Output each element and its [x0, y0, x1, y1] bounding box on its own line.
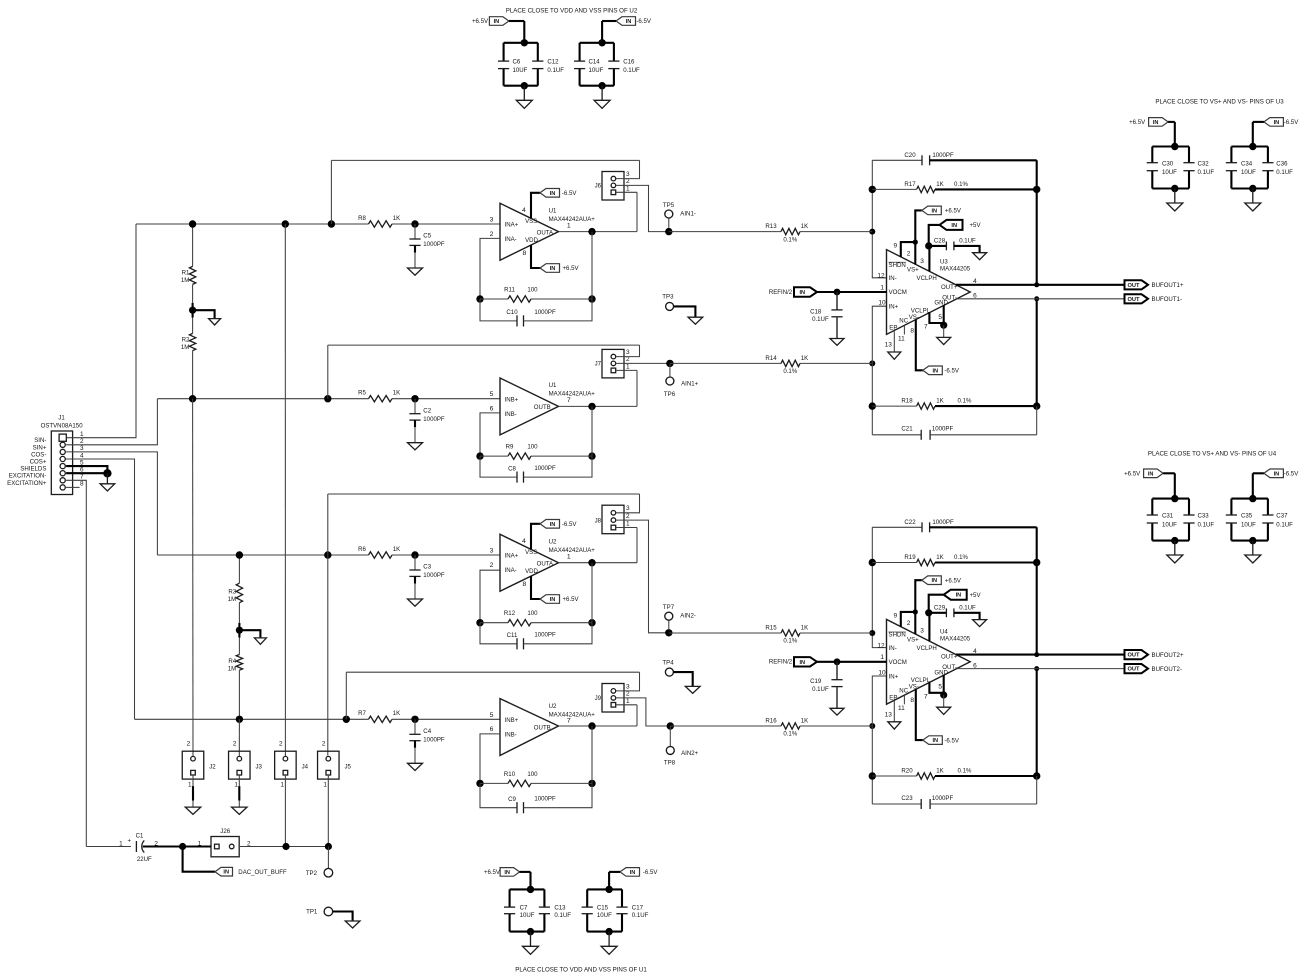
wire jumper pin3 to bypass — [616, 160, 640, 178]
capacitor C16 — [613, 43, 615, 61]
svg-text:U1: U1 — [549, 382, 557, 389]
svg-text:C9: C9 — [508, 796, 516, 803]
svg-text:SHIELDS: SHIELDS — [20, 466, 46, 473]
ground — [232, 807, 248, 814]
op-amp U3 MAX44205 (fully differential) — [887, 250, 971, 335]
ground — [1252, 541, 1254, 555]
power pin VDD +6.5V (IN) — [531, 245, 540, 268]
svg-text:0.1%: 0.1% — [954, 554, 968, 561]
ground — [1174, 189, 1176, 204]
ground — [1174, 541, 1176, 555]
svg-text:J26: J26 — [220, 828, 230, 835]
svg-text:TP3: TP3 — [662, 294, 674, 301]
svg-text:IN: IN — [799, 660, 805, 666]
svg-text:IN: IN — [626, 19, 632, 25]
capacitor C20 1000PF — [872, 159, 922, 161]
ground — [185, 807, 201, 814]
wire right rail bottom — [1034, 666, 1039, 671]
svg-text:C22: C22 — [904, 519, 916, 526]
svg-text:R9: R9 — [506, 444, 514, 451]
svg-text:1K: 1K — [801, 624, 808, 631]
jumper J9 — [602, 684, 624, 713]
svg-text:1: 1 — [880, 284, 884, 291]
wire SHIELDS (J1.5) — [66, 466, 107, 473]
power flag -6.5V (IN) — [1264, 118, 1284, 127]
node R3 top — [236, 551, 243, 558]
wire COS+ to J3 — [238, 719, 240, 756]
svg-text:10UF: 10UF — [1162, 521, 1177, 528]
svg-text:C12: C12 — [547, 58, 559, 65]
wire input row — [136, 223, 369, 225]
output flag BUFOUT1- (OUT) — [1125, 294, 1149, 303]
svg-text:1M: 1M — [181, 344, 189, 351]
svg-text:7: 7 — [80, 474, 84, 481]
svg-text:10UF: 10UF — [589, 67, 604, 74]
ground — [888, 722, 901, 729]
svg-text:TP1: TP1 — [306, 909, 318, 916]
svg-text:INB+: INB+ — [505, 396, 519, 403]
jumper J7 — [602, 349, 624, 378]
svg-text:U4: U4 — [940, 628, 948, 635]
svg-text:IN: IN — [951, 223, 957, 229]
wire — [238, 775, 240, 786]
wire — [510, 888, 545, 890]
svg-text:2: 2 — [490, 562, 494, 569]
svg-text:C1: C1 — [136, 832, 144, 839]
svg-text:R18: R18 — [901, 398, 913, 405]
svg-text:MAX44242AUA+: MAX44242AUA+ — [549, 711, 596, 718]
power pin VSS -6.5V (IN) — [531, 524, 540, 549]
power flag DAC_OUT_BUFF (IN) — [183, 847, 215, 872]
wire EXCITATION+ (J1.7) — [66, 480, 86, 846]
svg-text:0.1UF: 0.1UF — [812, 316, 829, 323]
power flag -6.5V (IN) — [1264, 469, 1284, 478]
wire right rail top — [1036, 160, 1038, 284]
resistor R20 1K 0.1% (feedback bottom) — [869, 772, 876, 779]
op-amp U4 MAX44205 (fully differential) — [887, 619, 971, 704]
wire output — [559, 725, 638, 727]
jumper J3 — [229, 751, 251, 779]
svg-text:1000PF: 1000PF — [932, 519, 954, 526]
node R3/R4 midpoint — [236, 627, 243, 634]
svg-text:1K: 1K — [393, 215, 400, 222]
resistor R19 1K 0.1% (feedback top) — [869, 559, 876, 566]
svg-text:1K: 1K — [801, 355, 808, 362]
output flag BUFOUT2+ (OUT) — [1125, 650, 1149, 659]
wire inverting input to feedback — [480, 238, 500, 299]
resistor R16 1K 0.1% (input bottom) — [869, 723, 875, 729]
svg-text:0.1UF: 0.1UF — [632, 912, 649, 919]
svg-text:3: 3 — [626, 171, 630, 178]
ground — [408, 599, 423, 606]
svg-text:11: 11 — [898, 705, 905, 712]
svg-text:IN-: IN- — [889, 275, 897, 282]
svg-text:OUT: OUT — [1127, 297, 1140, 303]
svg-text:IN: IN — [1153, 120, 1159, 126]
wire input row — [157, 554, 368, 556]
svg-text:MAX44242AUA+: MAX44242AUA+ — [549, 547, 596, 554]
svg-text:TP2: TP2 — [306, 870, 318, 877]
svg-text:7: 7 — [567, 397, 571, 404]
svg-text:AIN2-: AIN2- — [680, 613, 696, 620]
resistor R18 1K 0.1% (feedback bottom) — [869, 402, 876, 409]
resistor R12 100 (feedback) — [476, 619, 483, 626]
svg-text:4: 4 — [80, 452, 84, 459]
svg-text:BUFOUT2+: BUFOUT2+ — [1152, 652, 1184, 659]
svg-text:SIN-: SIN- — [34, 437, 46, 444]
svg-text:10UF: 10UF — [1241, 169, 1256, 176]
wire bypass top — [346, 671, 639, 673]
wire inverting input to feedback — [480, 413, 500, 456]
svg-text:J2: J2 — [209, 764, 216, 771]
ground — [888, 352, 901, 359]
svg-text:GND: GND — [934, 300, 948, 307]
svg-text:EP: EP — [889, 325, 897, 332]
svg-text:100: 100 — [527, 444, 538, 451]
svg-text:EP: EP — [889, 694, 897, 701]
op-amp U2 A MAX44242AUA+ — [500, 534, 559, 591]
wire jumper pin3 to bypass — [616, 672, 640, 691]
svg-text:INB-: INB- — [505, 411, 517, 418]
svg-text:TP8: TP8 — [664, 760, 676, 767]
svg-text:0.1%: 0.1% — [958, 768, 972, 775]
svg-text:MAX44242AUA+: MAX44242AUA+ — [549, 391, 596, 398]
capacitor C7 — [509, 889, 511, 907]
svg-text:C20: C20 — [904, 152, 916, 159]
svg-text:0.1%: 0.1% — [958, 398, 972, 405]
svg-text:IN: IN — [799, 290, 805, 296]
svg-text:1K: 1K — [936, 181, 943, 188]
svg-text:PLACE CLOSE TO VDD AND VSS PIN: PLACE CLOSE TO VDD AND VSS PINS OF U2 — [506, 7, 638, 14]
wire — [192, 775, 194, 786]
svg-text:+6.5V: +6.5V — [945, 208, 962, 215]
capacitor C36 — [1267, 147, 1269, 163]
svg-text:OUT: OUT — [1127, 283, 1140, 289]
svg-text:0.1%: 0.1% — [783, 731, 797, 738]
resistor R15 1K 0.1% (input top) — [869, 630, 875, 636]
wire output — [559, 231, 638, 233]
svg-text:C34: C34 — [1241, 160, 1253, 167]
svg-text:1000PF: 1000PF — [534, 309, 556, 316]
svg-text:VOCM: VOCM — [889, 659, 907, 666]
svg-text:1: 1 — [880, 654, 884, 661]
wire output — [559, 405, 638, 407]
svg-text:VDD: VDD — [525, 568, 538, 575]
op-amp U1 A MAX44242AUA+ — [500, 203, 559, 260]
svg-text:OUTB: OUTB — [534, 404, 551, 411]
svg-text:2: 2 — [233, 741, 237, 748]
svg-text:-6.5V: -6.5V — [944, 368, 960, 375]
svg-text:IN+: IN+ — [889, 304, 899, 311]
svg-text:OUT+: OUT+ — [941, 654, 958, 661]
svg-text:13: 13 — [885, 342, 893, 349]
node J4 tap — [282, 220, 289, 227]
svg-text:R4: R4 — [228, 658, 236, 665]
svg-text:9: 9 — [893, 612, 897, 619]
power pin VDD +6.5V (IN) — [531, 576, 540, 599]
svg-text:10UF: 10UF — [513, 67, 528, 74]
pin NC stub — [903, 325, 905, 334]
svg-text:1: 1 — [626, 521, 630, 528]
svg-text:1K: 1K — [936, 768, 943, 775]
capacitor C3 1000PF — [411, 551, 418, 558]
svg-text:0.1UF: 0.1UF — [623, 67, 640, 74]
svg-text:EXCITATION+: EXCITATION+ — [7, 480, 47, 487]
capacitor C35 — [1230, 499, 1232, 515]
svg-text:IN-: IN- — [889, 645, 897, 652]
svg-text:1: 1 — [567, 222, 571, 229]
svg-text:2: 2 — [626, 356, 630, 363]
ground — [408, 763, 423, 770]
svg-text:J4: J4 — [302, 764, 309, 771]
svg-text:U3: U3 — [940, 259, 948, 266]
power pin VSS -6.5V (IN) — [531, 193, 540, 218]
wire jumper pin3 to bypass — [616, 494, 640, 513]
svg-text:IN: IN — [931, 578, 937, 584]
wire J1.8 stub — [66, 486, 80, 488]
svg-text:12: 12 — [877, 273, 885, 280]
svg-text:1000PF: 1000PF — [423, 736, 445, 743]
svg-text:IN: IN — [956, 593, 962, 599]
ground — [943, 695, 945, 707]
capacitor C11 1000PF (feedback) — [480, 623, 517, 644]
wire OUT+ to BUFOUT2+ — [956, 654, 1125, 656]
power flag +5V (IN) — [944, 590, 967, 600]
power pin VS+ +6.5V (IN) — [915, 210, 922, 264]
svg-text:U2: U2 — [549, 703, 557, 710]
ground — [973, 620, 987, 627]
op-amp U1 B MAX44242AUA+ — [500, 378, 559, 435]
resistor R17 1K 0.1% (feedback top) — [869, 186, 876, 193]
svg-text:IN: IN — [932, 368, 938, 374]
node R4 bottom — [236, 716, 243, 723]
wire right rail top — [1036, 527, 1038, 654]
ground — [1252, 189, 1254, 204]
svg-text:INA-: INA- — [505, 567, 517, 574]
wire input row — [157, 398, 368, 400]
capacitor C29 0.1UF — [929, 612, 947, 614]
svg-text:1: 1 — [567, 553, 571, 560]
svg-text:+5V: +5V — [970, 222, 982, 229]
node DAC_OUT_BUFF — [179, 843, 186, 850]
svg-text:MAX44205: MAX44205 — [940, 266, 971, 273]
svg-text:R20: R20 — [901, 768, 913, 775]
svg-text:0.1%: 0.1% — [783, 638, 797, 645]
svg-text:C31: C31 — [1162, 513, 1174, 520]
capacitor C14 — [579, 43, 581, 61]
svg-text:0.1%: 0.1% — [954, 181, 968, 188]
svg-text:4: 4 — [522, 538, 526, 545]
wire jumper pin1 — [616, 527, 637, 529]
capacitor C32 — [1188, 147, 1190, 163]
test point TP3 (gnd) — [666, 302, 674, 310]
svg-text:VS+: VS+ — [907, 267, 919, 274]
svg-text:J9: J9 — [595, 695, 602, 702]
svg-text:TP6: TP6 — [664, 391, 676, 398]
wire OUT- to BUFOUT1- — [957, 298, 1125, 300]
svg-text:C18: C18 — [810, 308, 822, 315]
svg-text:1000PF: 1000PF — [423, 416, 445, 423]
svg-text:VCLPH: VCLPH — [917, 275, 937, 282]
power flag -6.5V (IN) — [616, 17, 636, 26]
ground — [523, 86, 525, 101]
svg-text:7: 7 — [924, 694, 928, 701]
svg-text:VOCM: VOCM — [889, 289, 907, 296]
svg-text:2: 2 — [322, 741, 326, 748]
svg-text:R6: R6 — [358, 546, 366, 553]
svg-text:0.1UF: 0.1UF — [547, 67, 564, 74]
node SHIELDS/EXCITATION- junction — [103, 469, 111, 477]
svg-text:IN: IN — [931, 208, 937, 214]
svg-text:22UF: 22UF — [137, 856, 152, 863]
svg-text:+: + — [128, 839, 132, 845]
svg-text:C33: C33 — [1198, 513, 1210, 520]
wire VCLPH — [929, 225, 940, 246]
svg-text:8: 8 — [523, 250, 527, 257]
svg-text:IN: IN — [494, 19, 500, 25]
op-amp U2 B MAX44242AUA+ — [500, 699, 559, 756]
wire inverting input to feedback — [480, 734, 500, 784]
svg-text:0.1UF: 0.1UF — [1198, 169, 1215, 176]
svg-text:COS+: COS+ — [30, 459, 47, 466]
wire COS+ (J1.4) — [66, 459, 134, 719]
svg-text:1: 1 — [234, 782, 238, 789]
power flag -6.5V (IN) — [620, 868, 640, 877]
svg-text:+6.5V: +6.5V — [563, 265, 580, 272]
test point TP1 (gnd) — [324, 907, 333, 916]
svg-text:C17: C17 — [632, 905, 644, 912]
svg-text:R15: R15 — [765, 624, 777, 631]
wire — [1152, 498, 1189, 500]
wire — [1152, 145, 1189, 147]
svg-text:C5: C5 — [423, 233, 431, 240]
ground — [239, 630, 260, 638]
svg-text:C10: C10 — [506, 309, 518, 316]
svg-text:R13: R13 — [765, 223, 777, 230]
svg-text:12: 12 — [877, 642, 885, 649]
svg-text:INB+: INB+ — [505, 717, 519, 724]
svg-text:SHDN: SHDN — [889, 632, 906, 639]
svg-text:IN: IN — [630, 870, 636, 876]
svg-text:2: 2 — [187, 741, 191, 748]
svg-text:3: 3 — [490, 217, 494, 224]
wire feedback top rail (IN-) — [872, 527, 886, 647]
ground — [608, 932, 610, 947]
svg-text:+6.5V: +6.5V — [472, 18, 489, 25]
svg-text:U2: U2 — [549, 539, 557, 546]
svg-text:AIN1-: AIN1- — [680, 210, 696, 217]
ground — [830, 708, 844, 715]
pin NC stub — [903, 695, 905, 704]
svg-text:1: 1 — [188, 782, 192, 789]
svg-text:1: 1 — [626, 364, 630, 371]
svg-text:2: 2 — [490, 231, 494, 238]
ground — [106, 473, 108, 484]
test point TP6 / node AIN1+ — [666, 360, 673, 367]
svg-text:100: 100 — [527, 287, 538, 294]
svg-text:J6: J6 — [595, 183, 602, 190]
svg-text:7: 7 — [567, 718, 571, 725]
svg-text:REFIN/2: REFIN/2 — [769, 289, 793, 296]
svg-text:4: 4 — [522, 207, 526, 214]
svg-text:R8: R8 — [358, 215, 366, 222]
svg-text:2: 2 — [907, 250, 911, 257]
svg-text:NC: NC — [899, 687, 908, 694]
svg-text:TP4: TP4 — [662, 660, 674, 667]
wire jumper pin1 — [616, 369, 637, 371]
svg-text:AIN2+: AIN2+ — [681, 750, 699, 757]
node R2 bottom — [189, 395, 196, 402]
test point TP5 / node AIN1- — [665, 228, 672, 235]
svg-text:6: 6 — [490, 726, 494, 733]
svg-text:C35: C35 — [1241, 513, 1253, 520]
wire bypass top — [328, 493, 640, 495]
svg-text:9: 9 — [893, 243, 897, 250]
svg-text:VSS: VSS — [525, 549, 537, 556]
svg-text:+6.5V: +6.5V — [1124, 471, 1141, 478]
wire feedback top rail (IN-) — [872, 160, 886, 277]
wire — [1231, 145, 1268, 147]
output flag BUFOUT1+ (OUT) — [1125, 280, 1149, 289]
svg-text:1K: 1K — [936, 554, 943, 561]
ground — [408, 268, 423, 275]
capacitor C12 — [537, 43, 539, 61]
svg-text:OUTA: OUTA — [537, 560, 554, 567]
node R1 top — [189, 220, 196, 227]
capacitor C37 — [1267, 499, 1269, 515]
wire input row — [135, 718, 369, 720]
svg-text:3: 3 — [626, 683, 630, 690]
svg-text:1: 1 — [280, 782, 284, 789]
wire — [504, 42, 538, 44]
svg-text:3: 3 — [920, 628, 924, 635]
resistor R14 1K 0.1% (input bottom) — [869, 360, 875, 366]
svg-text:13: 13 — [885, 712, 893, 719]
svg-text:OUT: OUT — [1127, 653, 1140, 659]
svg-text:0.1UF: 0.1UF — [812, 686, 829, 693]
svg-text:1000PF: 1000PF — [932, 152, 954, 159]
svg-text:0.1UF: 0.1UF — [959, 238, 976, 245]
svg-text:IN: IN — [550, 597, 556, 603]
svg-text:5: 5 — [490, 391, 494, 398]
svg-text:R12: R12 — [504, 610, 516, 617]
node J4.1 tap — [282, 843, 289, 850]
svg-text:C14: C14 — [589, 58, 601, 65]
svg-text:C37: C37 — [1276, 513, 1288, 520]
svg-text:1000PF: 1000PF — [534, 465, 556, 472]
svg-text:BUFOUT1-: BUFOUT1- — [1152, 296, 1182, 303]
svg-text:R5: R5 — [358, 390, 366, 397]
wire — [587, 888, 622, 890]
svg-text:J1: J1 — [58, 415, 65, 422]
svg-text:10: 10 — [878, 670, 886, 677]
svg-text:5: 5 — [938, 314, 942, 321]
svg-text:1000PF: 1000PF — [932, 795, 954, 802]
ground — [408, 443, 423, 450]
svg-text:R10: R10 — [504, 771, 516, 778]
svg-text:C13: C13 — [554, 905, 566, 912]
capacitor C6 — [503, 43, 505, 61]
jumper J4 — [275, 751, 297, 779]
wire J4 pin1 down — [284, 775, 286, 847]
svg-text:10UF: 10UF — [1162, 169, 1177, 176]
svg-text:1K: 1K — [801, 717, 808, 724]
power pin VS+ +6.5V (IN) — [915, 580, 922, 634]
node J5.1 / TP2 tap — [325, 843, 332, 850]
svg-text:-6.5V: -6.5V — [562, 521, 578, 528]
svg-text:2: 2 — [279, 741, 283, 748]
svg-text:IN: IN — [504, 870, 510, 876]
